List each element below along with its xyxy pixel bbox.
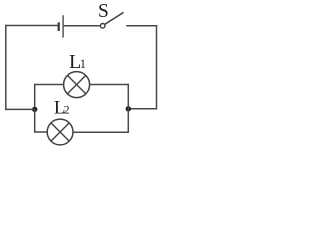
wire node A down to lamp L2 row (34, 109, 36, 132)
wire switch fixed contact to top-right corner (126, 25, 157, 27)
wire L1 right lead (90, 84, 129, 86)
wire right rail (vertical) (156, 25, 158, 109)
switch S blade (open) (105, 12, 124, 24)
label L2 (54, 97, 70, 118)
wire left rail (vertical) (5, 25, 7, 110)
node B junction dot (126, 106, 131, 111)
node A junction dot (32, 107, 37, 112)
wire L1 branch down to node A (34, 84, 36, 110)
label S (98, 1, 109, 22)
wire L2 right lead (73, 131, 129, 133)
battery negative plate (short thick) (58, 22, 60, 31)
wire L1 left lead (34, 84, 63, 86)
wire node B up to lamp L1 row (127, 84, 129, 109)
wire L2 up to node B (127, 109, 129, 133)
svg-text:1: 1 (80, 57, 86, 71)
wire top-left segment (left rail to battery) (5, 25, 58, 27)
label L1 (69, 51, 86, 73)
lamp L1 (64, 72, 90, 98)
wire bottom-left horizontal (node A to left rail) (5, 108, 35, 110)
switch S pivot contact (100, 24, 105, 29)
battery positive plate (long thin) (62, 15, 64, 37)
wire battery to switch (64, 25, 101, 27)
svg-text:2: 2 (64, 103, 70, 117)
svg-text:S: S (98, 1, 109, 22)
lamp L2 (47, 119, 73, 145)
wire bottom-right horizontal to node B (128, 108, 157, 110)
wire L2 left lead (34, 131, 47, 133)
